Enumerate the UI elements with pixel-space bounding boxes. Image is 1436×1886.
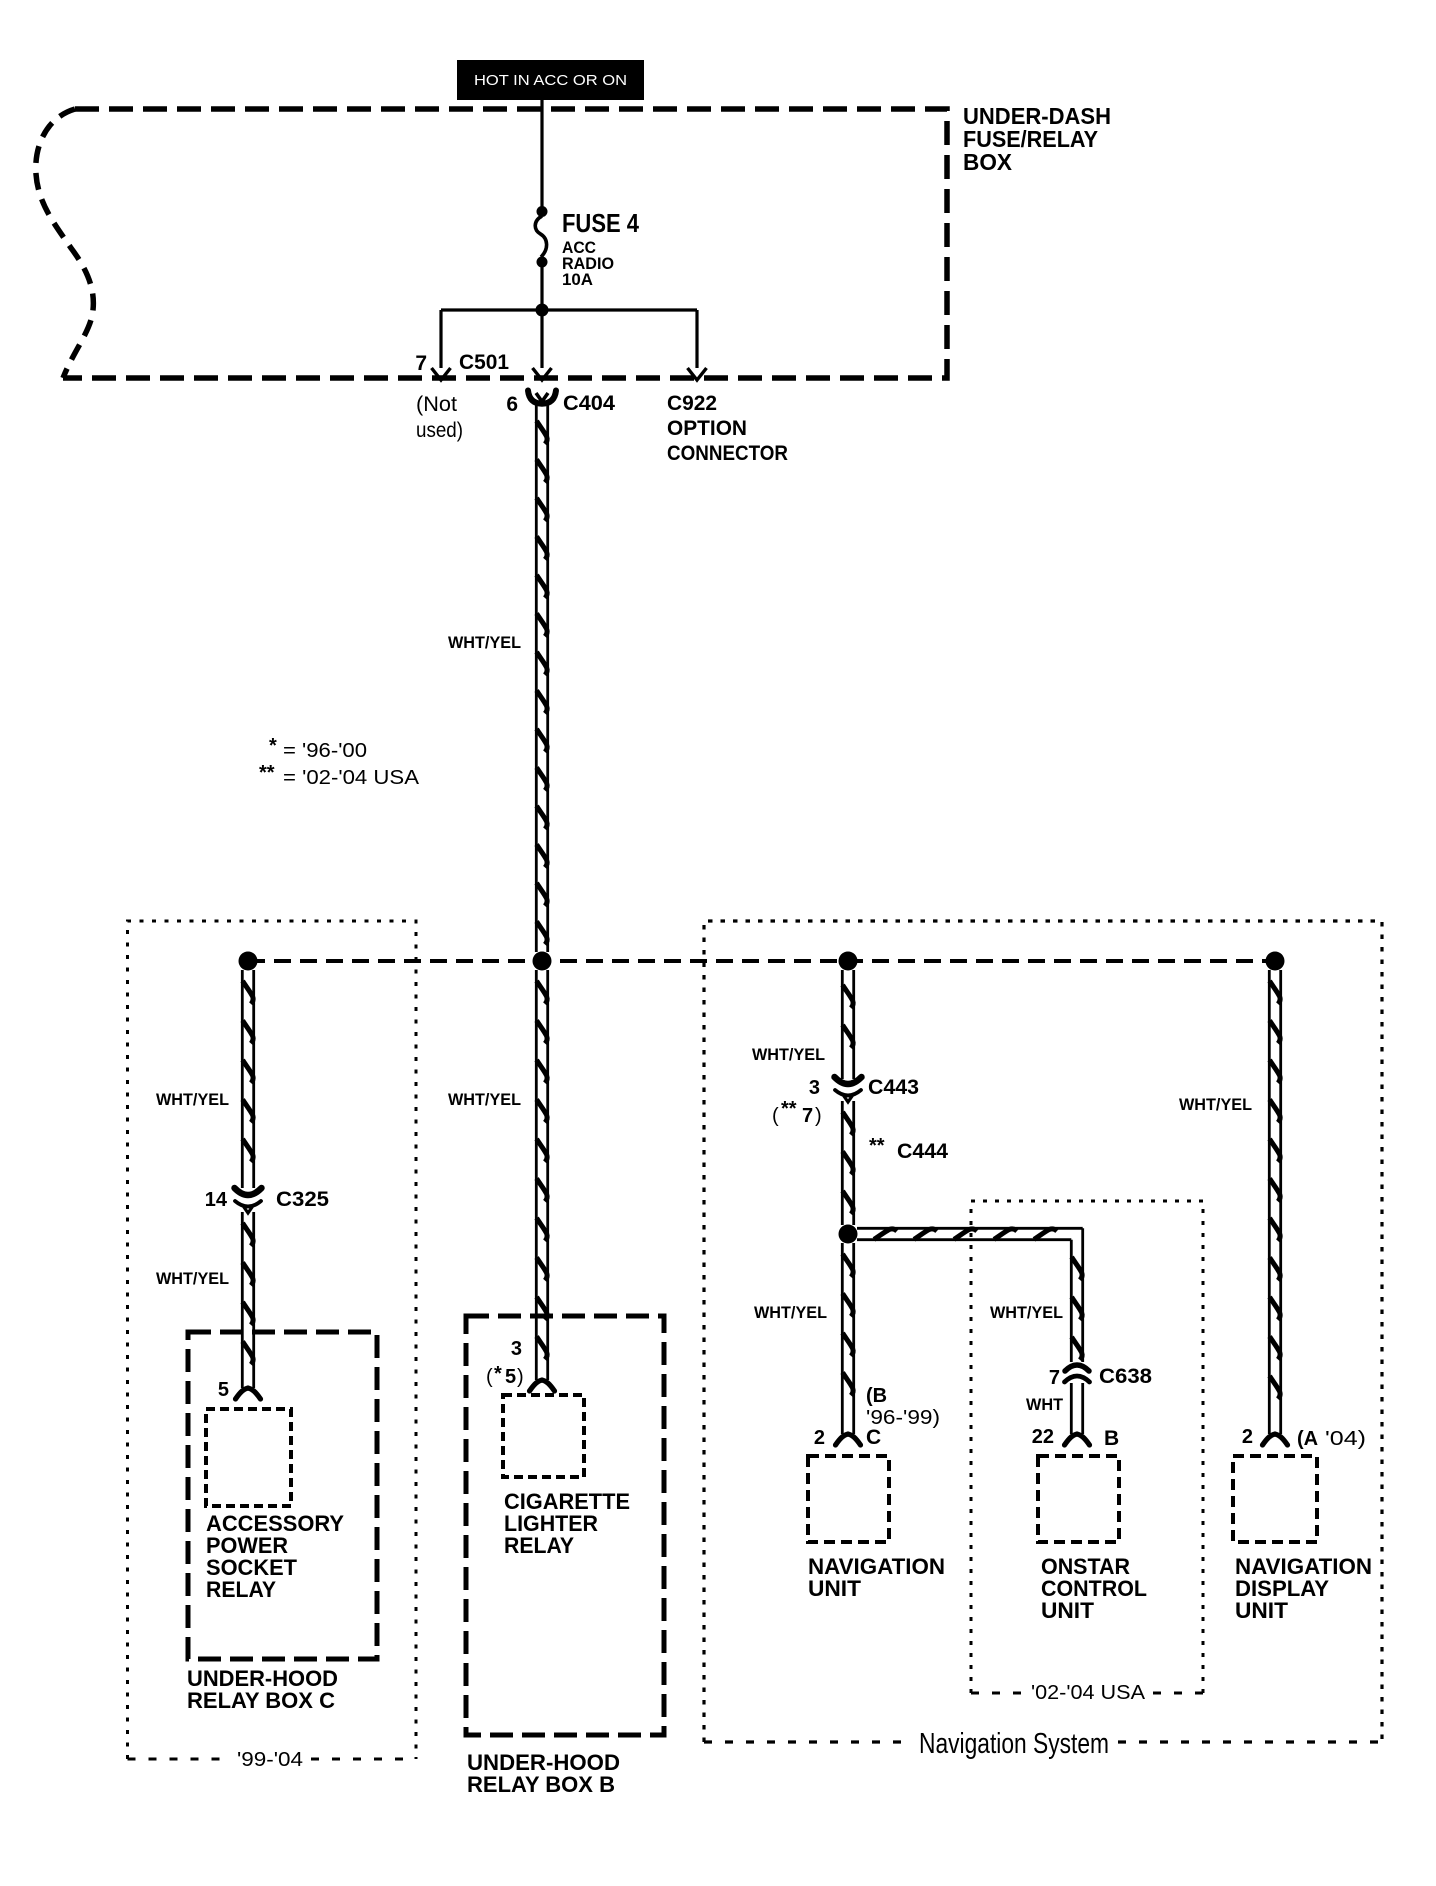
svg-text:= '02-'04 USA: = '02-'04 USA xyxy=(283,767,420,789)
svg-text:B: B xyxy=(1104,1427,1119,1450)
under-hood relay box C outline xyxy=(188,1332,377,1659)
svg-text:C404: C404 xyxy=(563,392,615,415)
under-dash fuse/relay box label xyxy=(963,103,1111,175)
wire WHT C638 to onstar control unit xyxy=(1071,1383,1082,1434)
svg-text:(: ( xyxy=(486,1366,493,1388)
power source label HOT IN ACC OR ON xyxy=(457,60,644,100)
svg-text:(A: (A xyxy=(1297,1428,1318,1450)
junction node below fuse xyxy=(536,304,549,317)
fuse value label ACC RADIO 10A xyxy=(562,239,614,289)
svg-text:RELAY BOX B: RELAY BOX B xyxy=(467,1772,615,1797)
svg-text:WHT/YEL: WHT/YEL xyxy=(156,1090,229,1109)
svg-text:5: 5 xyxy=(505,1366,516,1388)
pin 2 label xyxy=(1242,1426,1253,1448)
svg-text:): ) xyxy=(815,1105,822,1127)
wire color label WHT/YEL xyxy=(448,633,521,652)
svg-text:'02-'04 USA: '02-'04 USA xyxy=(1031,1682,1146,1704)
svg-text:FUSE 4: FUSE 4 xyxy=(562,208,639,238)
wire branch to C501 xyxy=(432,310,451,380)
pin 5 label xyxy=(218,1379,229,1401)
wire WHT/YEL C325 to relay xyxy=(242,1212,253,1388)
splice node D xyxy=(1266,952,1285,971)
pin 14 label xyxy=(205,1189,228,1211)
terminal fork into navigation unit xyxy=(836,1434,861,1445)
wire color label WHT xyxy=(1026,1395,1064,1414)
wire color label WHT/YEL xyxy=(448,1090,521,1109)
svg-text:**: ** xyxy=(259,762,275,784)
connector C404 label xyxy=(563,392,615,415)
terminal fork into onstar control unit xyxy=(1065,1434,1090,1445)
navigation unit box xyxy=(808,1456,889,1542)
wire color label WHT/YEL xyxy=(156,1269,229,1288)
splice node A xyxy=(239,952,258,971)
connector C444 label xyxy=(869,1135,948,1163)
onstar control unit label xyxy=(1041,1554,1147,1623)
C501 not used note xyxy=(416,393,463,442)
svg-text:WHT/YEL: WHT/YEL xyxy=(156,1269,229,1288)
under-dash fuse/relay box outline xyxy=(36,109,947,378)
terminal fork into navigation display unit xyxy=(1263,1434,1288,1445)
under-hood relay box C label xyxy=(187,1666,338,1713)
svg-text:UNIT: UNIT xyxy=(1041,1598,1095,1623)
pin (**7) label xyxy=(772,1098,822,1127)
svg-text:Navigation System: Navigation System xyxy=(919,1728,1109,1760)
svg-text:OPTION: OPTION xyxy=(667,417,747,440)
svg-text:C443: C443 xyxy=(868,1076,919,1099)
connector C443 label xyxy=(868,1076,919,1099)
svg-text:used): used) xyxy=(416,419,463,442)
svg-text:WHT: WHT xyxy=(1026,1395,1064,1414)
onstar option box label '02-'04 USA xyxy=(1031,1682,1146,1704)
terminal fork into cigarette lighter relay xyxy=(530,1380,555,1391)
cigarette lighter relay box xyxy=(503,1395,584,1477)
svg-text:RELAY: RELAY xyxy=(206,1577,276,1602)
svg-text:RELAY: RELAY xyxy=(504,1533,574,1558)
wire WHT/YEL from C404 to splice bus xyxy=(536,405,547,952)
fuse name label FUSE 4 xyxy=(562,208,639,238)
navigation unit label xyxy=(808,1554,945,1601)
wire WHT/YEL splice to navigation display unit xyxy=(1269,970,1280,1434)
svg-text:BOX: BOX xyxy=(963,149,1013,175)
svg-text:2: 2 xyxy=(814,1427,825,1449)
wire from power source to fuse xyxy=(540,98,543,208)
onstar control unit box xyxy=(1038,1456,1119,1542)
wire branch to C404 xyxy=(533,310,552,380)
connector C638 pin 7 xyxy=(1065,1365,1090,1382)
pin (*5) label xyxy=(486,1363,524,1388)
pin 7 label xyxy=(1049,1367,1060,1389)
wire WHT/YEL splice to C443 xyxy=(842,970,853,1079)
option box '99-'04 outline xyxy=(128,921,417,1759)
wire branch to C922 xyxy=(688,310,707,380)
svg-text:UNIT: UNIT xyxy=(1235,1598,1289,1623)
svg-text:22: 22 xyxy=(1032,1426,1054,1448)
pin 6 label xyxy=(506,393,518,416)
connector C922 label xyxy=(667,392,788,465)
svg-text:HOT IN ACC OR ON: HOT IN ACC OR ON xyxy=(474,72,627,89)
connector C443 pin 3 xyxy=(835,1077,862,1102)
svg-text:CONNECTOR: CONNECTOR xyxy=(667,442,788,465)
pin C label xyxy=(866,1426,881,1449)
svg-text:WHT/YEL: WHT/YEL xyxy=(448,633,521,652)
wire WHT/YEL C443 to splice node E xyxy=(842,1101,853,1225)
pin 3 label xyxy=(809,1077,820,1099)
svg-text:C325: C325 xyxy=(276,1188,329,1211)
option box label '99-'04 xyxy=(237,1749,303,1771)
wire fuse to junction xyxy=(540,266,543,310)
horizontal distribution wire xyxy=(441,308,697,311)
navigation system box outline xyxy=(704,921,1382,1742)
wire color label WHT/YEL xyxy=(1179,1095,1252,1114)
svg-text:7: 7 xyxy=(415,352,427,375)
svg-text:7: 7 xyxy=(1049,1367,1060,1389)
svg-text:'04): '04) xyxy=(1325,1428,1366,1450)
svg-text:3: 3 xyxy=(511,1338,522,1360)
svg-text:5: 5 xyxy=(218,1379,229,1401)
svg-text:*: * xyxy=(269,735,277,757)
onstar option box '02-'04 USA outline xyxy=(971,1201,1203,1693)
svg-text:**: ** xyxy=(781,1098,797,1120)
pin 7 label xyxy=(415,352,427,375)
svg-text:*: * xyxy=(494,1363,502,1385)
navigation system box label xyxy=(919,1728,1109,1760)
svg-text:C922: C922 xyxy=(667,392,717,415)
svg-text:'99-'04: '99-'04 xyxy=(237,1749,303,1771)
svg-text:WHT/YEL: WHT/YEL xyxy=(752,1045,825,1064)
wire WHT/YEL splice E to navigation unit xyxy=(842,1243,853,1434)
splice bus dashed wire xyxy=(248,959,1275,963)
svg-text:WHT/YEL: WHT/YEL xyxy=(448,1090,521,1109)
svg-text:RELAY BOX C: RELAY BOX C xyxy=(187,1688,335,1713)
splice node B xyxy=(533,952,552,971)
splice node C xyxy=(839,952,858,971)
wire WHT/YEL splice to cigarette lighter relay xyxy=(536,970,547,1380)
navigation display unit label xyxy=(1235,1554,1372,1623)
svg-text:(B: (B xyxy=(866,1385,887,1407)
svg-text:): ) xyxy=(517,1366,524,1388)
svg-text:14: 14 xyxy=(205,1189,228,1211)
wire color label WHT/YEL xyxy=(990,1303,1063,1322)
wire color label WHT/YEL xyxy=(752,1045,825,1064)
splice node E xyxy=(839,1225,858,1244)
cigarette lighter relay label xyxy=(504,1489,630,1558)
navigation display unit box xyxy=(1233,1456,1317,1542)
svg-text:UNIT: UNIT xyxy=(808,1576,862,1601)
svg-text:C: C xyxy=(866,1426,881,1449)
svg-text:C444: C444 xyxy=(897,1140,948,1163)
svg-text:C501: C501 xyxy=(459,351,509,374)
pin 3 label xyxy=(511,1338,522,1360)
accessory power socket relay box xyxy=(206,1409,291,1506)
pin 22 label xyxy=(1032,1426,1054,1448)
svg-text:2: 2 xyxy=(1242,1426,1253,1448)
connector C638 label xyxy=(1099,1365,1152,1388)
svg-text:'96-'99): '96-'99) xyxy=(866,1407,940,1429)
connector C501 label xyxy=(459,351,509,374)
wire WHT/YEL splice E to C638 (horizontal) xyxy=(857,1228,1083,1362)
note *='96-'00 xyxy=(269,735,367,762)
connector C404 pin 6 xyxy=(528,391,556,404)
svg-text:10A: 10A xyxy=(562,271,593,289)
accessory power socket relay label xyxy=(206,1511,344,1602)
svg-text:**: ** xyxy=(869,1135,885,1157)
svg-text:C638: C638 xyxy=(1099,1365,1152,1388)
svg-text:WHT/YEL: WHT/YEL xyxy=(754,1303,827,1322)
fuse FUSE 4 (ACC RADIO 10A) xyxy=(535,206,547,268)
wire color label WHT/YEL xyxy=(754,1303,827,1322)
pin 2 label xyxy=(814,1427,825,1449)
svg-text:3: 3 xyxy=(809,1077,820,1099)
under-hood relay box B outline xyxy=(466,1316,664,1735)
svg-text:= '96-'00: = '96-'00 xyxy=(283,740,367,762)
svg-text:7: 7 xyxy=(802,1105,813,1127)
svg-text:WHT/YEL: WHT/YEL xyxy=(990,1303,1063,1322)
wire WHT/YEL splice to C325 xyxy=(242,970,253,1188)
connector C325 label xyxy=(276,1188,329,1211)
svg-text:6: 6 xyxy=(506,393,518,416)
under-hood relay box B label xyxy=(467,1750,620,1797)
svg-text:(: ( xyxy=(772,1105,779,1127)
svg-text:WHT/YEL: WHT/YEL xyxy=(1179,1095,1252,1114)
svg-text:(Not: (Not xyxy=(416,393,457,416)
terminal fork into accessory power socket relay xyxy=(236,1388,261,1399)
pin note (B '96-'99) xyxy=(866,1385,940,1429)
wire color label WHT/YEL xyxy=(156,1090,229,1109)
connector C325 pin 14 xyxy=(235,1188,262,1213)
note **='02-'04 USA xyxy=(259,762,420,789)
pin B label xyxy=(1104,1427,1119,1450)
pin note (A '04) xyxy=(1297,1428,1366,1450)
